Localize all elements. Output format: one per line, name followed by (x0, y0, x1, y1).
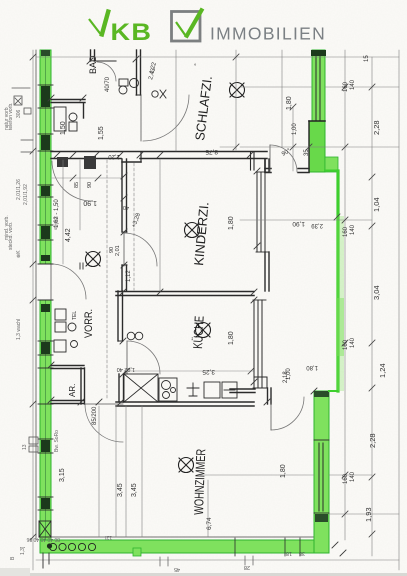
balcony door lower (wohnzimmer) (230, 388, 271, 404)
scanner bottom shadow (0, 573, 407, 576)
svg-text:28: 28 (244, 564, 250, 570)
right upper outer wall (green) (309, 50, 338, 172)
svg-text:AR.: AR. (68, 384, 77, 397)
wall junction slash ticks (48, 56, 317, 405)
svg-text:40: 40 (123, 204, 129, 210)
svg-text:WOHNZIMMER: WOHNZIMMER (191, 449, 208, 515)
bottom outer wall (green) (40, 537, 329, 556)
svg-text:2,28: 2,28 (372, 120, 381, 135)
svg-text:2,01/1,26: 2,01/1,26 (16, 179, 22, 200)
svg-text:3,04: 3,04 (372, 285, 381, 300)
svg-text:1,80: 1,80 (228, 331, 235, 345)
right balcony edge (green line) (336, 171, 339, 391)
svg-text:306: 306 (16, 109, 22, 118)
svg-text:1,90: 1,90 (83, 199, 97, 206)
tiny left margin notes (4, 102, 112, 560)
schlafzi radiator circle (152, 90, 166, 98)
wall corridor/kinderzi vertical (122, 159, 127, 291)
lamp flur (86, 252, 101, 267)
svg-text:1,12: 1,12 (126, 270, 132, 282)
wc door arc (97, 62, 116, 81)
svg-text:KÜCHE: KÜCHE (190, 315, 207, 349)
svg-text:2,01/1,92: 2,01/1,92 (23, 184, 29, 205)
wall kinderzi/kueche horizontal (116, 292, 254, 296)
corridor to living room door arc (85, 404, 123, 442)
wall bath/schlafzi vertical (136, 50, 141, 95)
svg-text:2,39: 2,39 (311, 222, 323, 228)
svg-text:VORR.: VORR. (83, 309, 95, 338)
svg-text:13: 13 (22, 444, 28, 450)
bottom right corner ticks (332, 542, 346, 556)
svg-text:1,04: 1,04 (372, 197, 381, 212)
bath fixtures (54, 107, 77, 131)
svg-text:⊗K: ⊗K (16, 250, 22, 258)
kinderzi east window (256, 159, 269, 291)
left wall tick lines (38, 85, 53, 510)
left bar top cap (41, 50, 50, 56)
svg-text:3,25: 3,25 (202, 368, 215, 375)
bath south wall (51, 100, 85, 119)
svg-text:KB: KB (111, 19, 153, 45)
entrance opening jamb lines (38, 263, 83, 300)
left wall window hatches (41, 86, 50, 509)
kueche east window (253, 300, 266, 388)
loggia door arc (schlafzi) (270, 145, 297, 172)
svg-text:140: 140 (350, 337, 356, 348)
kitchen counters (124, 332, 237, 402)
flur door arc in wall C (52, 161, 92, 201)
logo VKB check V (89, 9, 326, 46)
schlafzi door arc (143, 95, 189, 141)
kitchen door arc (127, 341, 160, 374)
interior dimension labels (54, 67, 323, 530)
wall C jamb stubs (57, 157, 68, 167)
svg-text:38: 38 (299, 550, 305, 556)
svg-text:12!: 12! (105, 534, 112, 540)
svg-text:1,3]: 1,3] (20, 546, 26, 555)
kinderzi door arc (124, 233, 157, 266)
dimension labels right column (343, 55, 387, 522)
svg-text:85/200: 85/200 (92, 406, 98, 425)
wc sink (130, 79, 139, 88)
right lower outer wall (green) (314, 391, 337, 553)
svg-text:140: 140 (350, 79, 356, 90)
svg-text:3,45: 3,45 (117, 483, 124, 497)
svg-text:1,80: 1,80 (280, 464, 287, 478)
svg-text:1,80: 1,80 (306, 364, 318, 370)
loggia north wall with door (265, 160, 309, 173)
svg-text:18: 18 (286, 550, 292, 556)
wall kueche/wohnzimmer horizontal (116, 402, 254, 406)
svg-text:1,20: 1,20 (108, 153, 120, 159)
svg-text:85: 85 (74, 182, 80, 188)
svg-text:1,24: 1,24 (378, 363, 387, 378)
svg-text:8,75: 8,75 (205, 148, 218, 155)
svg-text:4,42: 4,42 (65, 228, 72, 242)
small window sill rects bottom left (29, 437, 38, 452)
bottom dimension marks (160, 556, 253, 566)
svg-text:steckd.: steckd. (53, 216, 58, 230)
svg-text:2,28: 2,28 (368, 433, 377, 448)
svg-text:160: 160 (343, 226, 349, 237)
svg-text:1,3 wachl: 1,3 wachl (16, 319, 22, 340)
paper noise filter (0, 0, 1, 1)
svg-text:40/70: 40/70 (105, 76, 111, 92)
svg-text:1,93: 1,93 (364, 507, 373, 522)
vorraum fixtures (54, 309, 78, 352)
corner dark post (47, 543, 52, 548)
svg-text:90: 90 (87, 182, 93, 188)
svg-text:1,55: 1,55 (98, 126, 105, 140)
svg-text:1,90: 1,90 (292, 220, 305, 227)
lamp kueche (196, 323, 211, 338)
svg-text:160: 160 (343, 81, 349, 92)
flur dim line small (51, 175, 121, 181)
lamp kinderzi (185, 223, 200, 238)
svg-text:3,15: 3,15 (59, 468, 66, 482)
svg-text:1,80: 1,80 (286, 96, 293, 110)
svg-text:1,50: 1,50 (60, 121, 67, 135)
left wall base window X (39, 521, 51, 568)
svg-text:6,74: 6,74 (206, 517, 213, 530)
svg-text:mind. vorb.: mind. vorb. (4, 215, 10, 240)
kitchen dim line (124, 368, 254, 374)
svg-text:1,80: 1,80 (228, 216, 235, 230)
svg-text:15: 15 (364, 55, 370, 62)
balcony post circles (49, 543, 56, 550)
svg-text:140: 140 (350, 224, 356, 235)
svg-text:45: 45 (174, 566, 180, 572)
wc toilet (119, 79, 128, 94)
svg-text:140: 140 (350, 471, 356, 482)
svg-text:1,00: 1,00 (286, 368, 292, 380)
svg-text:1,00: 1,00 (292, 123, 298, 135)
svg-text:90: 90 (109, 247, 115, 253)
svg-text:TEL: TEL (72, 311, 78, 320)
svg-text:IMMOBILIEN: IMMOBILIEN (210, 24, 326, 44)
dimension ticks (30, 54, 375, 540)
lamp wohnzimmer (179, 458, 194, 473)
wall C horizontal (schlafzi south) (51, 152, 267, 163)
svg-text:35: 35 (304, 149, 310, 156)
svg-text:Bw. SoRo: Bw. SoRo (54, 430, 60, 452)
svg-text:160: 160 (343, 473, 349, 484)
svg-text:natur vorb: natur vorb (4, 107, 10, 130)
wall C end jog vertical (251, 152, 255, 170)
lamp schlafzi (230, 83, 245, 98)
svg-text:160: 160 (343, 339, 349, 350)
svg-text:3,45: 3,45 (131, 483, 138, 497)
AR room walls (51, 366, 85, 405)
kitchen west wall (118, 291, 124, 402)
logo checkbox (172, 12, 201, 42)
top-left margin scribbles (12, 88, 33, 152)
entrance door arc in left wall (51, 264, 86, 299)
wc stub wall top (91, 50, 117, 61)
left outer wall (green) (36, 50, 51, 540)
svg-text:2,01: 2,01 (115, 245, 121, 256)
